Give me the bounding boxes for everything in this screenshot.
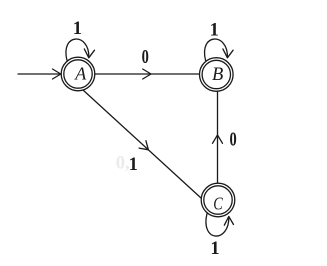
transition wire C to B: [217, 92, 219, 183]
initial arrow head: [53, 69, 61, 79]
svg-text:A: A: [74, 63, 87, 83]
self-loop A arrow head: [84, 49, 94, 58]
state B outer circle: [200, 58, 234, 92]
svg-text:0,: 0,: [116, 153, 130, 173]
svg-text:1: 1: [210, 20, 219, 40]
transition wire A to B: [95, 73, 199, 75]
svg-text:0: 0: [142, 47, 149, 68]
state C outer circle: [201, 183, 235, 217]
state A inner circle: [64, 60, 92, 88]
initial arrow wire into A: [18, 73, 61, 75]
svg-text:B: B: [212, 65, 223, 85]
svg-text:1: 1: [129, 155, 138, 175]
svg-text:C: C: [213, 193, 223, 213]
transition C to B arrow head: [213, 135, 223, 143]
transition wire A to C: [83, 90, 201, 198]
self-loop at C: [206, 214, 229, 237]
self-loop C arrow head: [224, 216, 233, 225]
state B inner circle: [202, 60, 230, 88]
svg-text:1: 1: [210, 239, 219, 259]
transition A to B arrow head: [143, 69, 151, 79]
state C inner circle: [204, 186, 232, 214]
self-loop at B: [205, 39, 228, 60]
self-loop B arrow head: [223, 49, 233, 58]
svg-text:1: 1: [73, 19, 82, 39]
self-loop at A: [66, 39, 89, 60]
svg-text:0: 0: [230, 129, 237, 150]
transition A to C arrow head: [139, 141, 148, 150]
state A outer circle: [61, 57, 95, 91]
